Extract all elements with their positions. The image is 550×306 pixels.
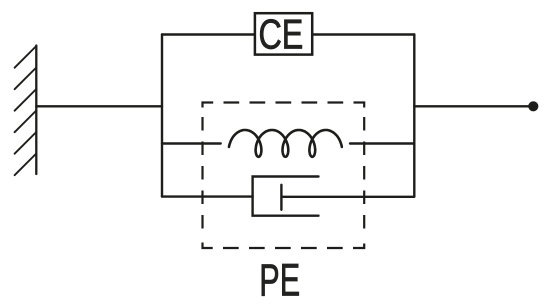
svg-text:CE: CE <box>258 10 303 57</box>
svg-text:PE: PE <box>259 255 300 305</box>
